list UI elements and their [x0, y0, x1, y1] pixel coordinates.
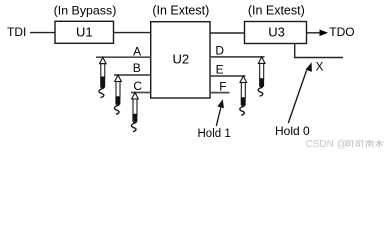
svg-text:D: D	[215, 44, 224, 58]
svg-text:TDI: TDI	[7, 25, 26, 39]
svg-text:B: B	[133, 61, 141, 75]
svg-text:Hold 1: Hold 1	[198, 128, 231, 140]
svg-text:A: A	[133, 45, 141, 59]
svg-text:(In Bypass): (In Bypass)	[54, 4, 117, 18]
svg-text:X: X	[316, 61, 324, 73]
svg-text:U2: U2	[172, 52, 189, 67]
svg-text:F: F	[219, 80, 226, 94]
svg-text:CSDN @: CSDN @	[306, 139, 347, 150]
svg-text:TDO: TDO	[329, 25, 354, 39]
svg-text:E: E	[216, 62, 224, 76]
svg-text:U3: U3	[268, 25, 285, 40]
svg-text:(In Extest): (In Extest)	[152, 4, 209, 18]
svg-text:Hold 0: Hold 0	[275, 124, 310, 138]
svg-text:C: C	[133, 79, 142, 93]
svg-text:(In Extest): (In Extest)	[248, 4, 305, 18]
svg-text:U1: U1	[76, 25, 93, 40]
